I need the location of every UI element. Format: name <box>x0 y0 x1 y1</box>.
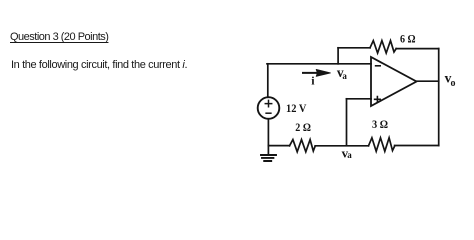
op-amp plus sign <box>375 97 381 103</box>
voltage source minus sign <box>266 112 271 114</box>
wire right rail vertical <box>438 49 440 146</box>
wire bottom rail left <box>268 145 289 147</box>
wire feedback horizontal right <box>396 48 439 50</box>
ground bars <box>261 155 276 161</box>
op-amp U1 triangle <box>371 57 417 106</box>
wire bottom rail middle <box>315 145 368 147</box>
wire below source <box>267 119 269 146</box>
question body text <box>11 59 187 71</box>
wire node va vertical <box>346 99 348 146</box>
question heading text <box>10 31 108 43</box>
svg-text:a: a <box>342 71 347 81</box>
wire left rail vertical <box>267 64 269 97</box>
svg-text:6 Ω: 6 Ω <box>400 32 416 46</box>
svg-text:12 V: 12 V <box>286 101 307 115</box>
svg-text:a: a <box>347 150 352 160</box>
op-amp minus sign <box>376 65 381 67</box>
wire noninverting input horizontal <box>347 98 372 100</box>
current arrow i head <box>316 70 330 77</box>
svg-text:i: i <box>311 73 315 87</box>
svg-text:3 Ω: 3 Ω <box>372 117 388 131</box>
wire feedback stub vertical <box>337 48 339 64</box>
svg-text:2 Ω: 2 Ω <box>295 120 311 134</box>
voltage source V1 circle <box>258 97 280 119</box>
ground stem <box>267 146 269 155</box>
resistor R 6ohm zigzag <box>370 41 396 53</box>
wire top horizontal (to inverting input) <box>267 63 371 65</box>
resistor R 3ohm zigzag <box>369 138 395 152</box>
wire bottom rail right <box>395 145 439 147</box>
wire output horizontal <box>417 80 439 82</box>
voltage source plus sign <box>265 100 271 106</box>
wire feedback horizontal left <box>338 47 370 49</box>
current arrow i shaft <box>303 72 318 74</box>
resistor R 2ohm zigzag <box>290 140 316 152</box>
svg-text:o: o <box>451 78 456 89</box>
